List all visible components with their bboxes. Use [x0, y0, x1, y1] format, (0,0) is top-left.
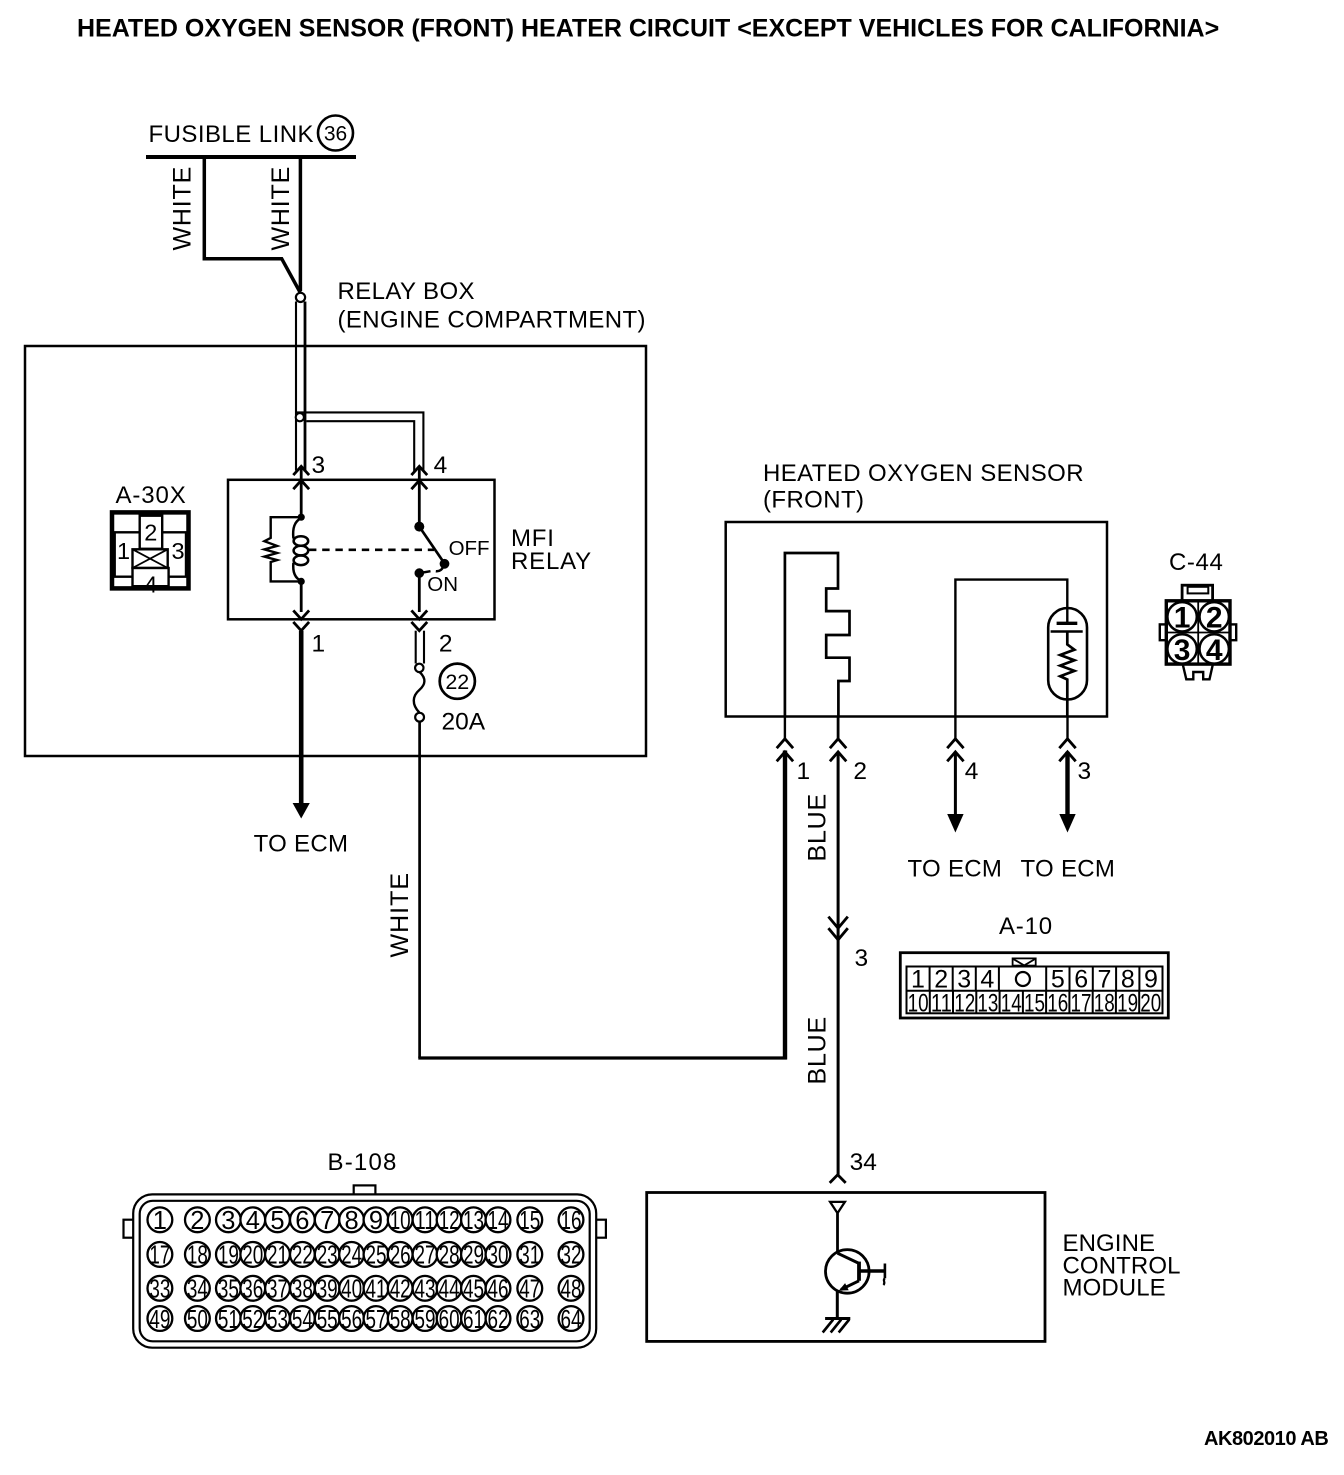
svg-text:HEATED OXYGEN SENSOR: HEATED OXYGEN SENSOR — [763, 460, 1084, 487]
svg-text:15: 15 — [1024, 989, 1045, 1017]
fusible link bus bar — [146, 155, 356, 159]
connector B-108 body — [124, 1185, 606, 1347]
svg-text:2: 2 — [144, 520, 157, 546]
svg-text:TO ECM: TO ECM — [1021, 856, 1116, 883]
svg-text:RELAY BOX: RELAY BOX — [338, 278, 475, 305]
MFI relay label — [511, 525, 592, 575]
svg-text:37: 37 — [267, 1276, 288, 1304]
svg-text:32: 32 — [561, 1242, 582, 1270]
svg-text:19: 19 — [1117, 989, 1138, 1017]
svg-text:2: 2 — [1206, 602, 1223, 635]
svg-text:20A: 20A — [442, 709, 486, 736]
svg-text:25: 25 — [366, 1242, 387, 1270]
switch ON contact dot — [415, 568, 431, 578]
svg-text:12: 12 — [954, 989, 975, 1017]
svg-text:A-30X: A-30X — [116, 482, 187, 509]
junction bullet at relay box feed — [296, 293, 305, 302]
svg-text:19: 19 — [218, 1242, 239, 1270]
connector A-10 body — [900, 953, 1168, 1018]
svg-text:17: 17 — [149, 1242, 170, 1270]
svg-text:22: 22 — [292, 1242, 313, 1270]
svg-text:3: 3 — [221, 1207, 235, 1235]
svg-text:52: 52 — [242, 1306, 263, 1334]
svg-text:13: 13 — [463, 1207, 484, 1235]
svg-text:3: 3 — [855, 945, 869, 972]
svg-text:18: 18 — [1094, 989, 1115, 1017]
wire: sensor pin 4 to ECM — [947, 752, 963, 833]
svg-text:HEATED OXYGEN SENSOR (FRONT) H: HEATED OXYGEN SENSOR (FRONT) HEATER CIRC… — [77, 15, 1219, 43]
fusible link number 36 — [318, 116, 353, 151]
svg-text:44: 44 — [439, 1276, 460, 1304]
wire: WHITE from fuse down — [418, 722, 421, 1059]
svg-text:8: 8 — [345, 1207, 359, 1235]
svg-text:36: 36 — [242, 1276, 263, 1304]
connector B-108 pin circles and numbers — [148, 1207, 584, 1334]
svg-text:30: 30 — [488, 1242, 509, 1270]
svg-text:BLUE: BLUE — [804, 793, 832, 862]
svg-text:16: 16 — [1047, 989, 1068, 1017]
svg-text:5: 5 — [270, 1207, 284, 1235]
svg-text:10: 10 — [390, 1207, 411, 1235]
svg-text:1: 1 — [117, 538, 130, 564]
junction dot coil bottom — [298, 578, 305, 585]
svg-text:63: 63 — [519, 1306, 540, 1334]
svg-text:55: 55 — [317, 1306, 338, 1334]
svg-text:C-44: C-44 — [1169, 549, 1223, 576]
svg-text:48: 48 — [561, 1276, 582, 1304]
wire: heavy feed pin 1 to ECM — [299, 631, 304, 805]
svg-text:14: 14 — [1001, 989, 1022, 1017]
svg-text:WHITE: WHITE — [169, 166, 197, 251]
connector C-44 pin numbers — [1174, 602, 1223, 667]
svg-text:11: 11 — [931, 989, 952, 1017]
connector A-10 pin numbers — [908, 966, 1162, 1018]
svg-text:WHITE: WHITE — [386, 872, 414, 958]
wire: coil to pin 1 — [300, 581, 303, 612]
switch common contact dot — [414, 522, 424, 532]
svg-text:MODULE: MODULE — [1063, 1275, 1166, 1302]
svg-text:BLUE: BLUE — [804, 1016, 832, 1085]
svg-text:35: 35 — [218, 1276, 239, 1304]
svg-text:18: 18 — [187, 1242, 208, 1270]
connector A-30X pin numbers — [117, 520, 185, 598]
svg-text:ON: ON — [427, 573, 458, 596]
svg-text:39: 39 — [317, 1276, 338, 1304]
svg-text:40: 40 — [341, 1276, 362, 1304]
svg-text:60: 60 — [439, 1306, 460, 1334]
svg-text:1: 1 — [1174, 602, 1191, 635]
relay box label — [338, 278, 646, 334]
svg-text:3: 3 — [312, 452, 326, 479]
svg-text:47: 47 — [519, 1276, 540, 1304]
wire: triangle to transistor — [836, 1213, 839, 1253]
junction dot coil top — [298, 514, 305, 521]
svg-text:20: 20 — [1140, 989, 1161, 1017]
MFI relay pin 1 connector arrows — [293, 610, 309, 630]
svg-text:4: 4 — [965, 758, 979, 785]
svg-text:FUSIBLE LINK: FUSIBLE LINK — [149, 121, 314, 148]
fuse top terminal circle — [415, 664, 423, 672]
svg-text:27: 27 — [415, 1242, 436, 1270]
svg-text:3: 3 — [172, 538, 185, 564]
svg-text:14: 14 — [488, 1207, 509, 1235]
dashed actuation line coil to switch — [309, 548, 434, 551]
connector C-44 body — [1160, 585, 1236, 679]
sensor pin 4 connector arrows — [947, 716, 963, 761]
svg-text:45: 45 — [463, 1276, 484, 1304]
ground (chassis) — [823, 1319, 851, 1333]
svg-text:20: 20 — [242, 1242, 263, 1270]
MFI relay pin 3 connector arrows — [293, 466, 309, 489]
svg-text:34: 34 — [187, 1276, 208, 1304]
svg-text:RELAY: RELAY — [511, 548, 592, 575]
svg-text:42: 42 — [390, 1276, 411, 1304]
resistor (parallel with relay coil) — [264, 517, 301, 581]
wire: double line from fusible link to MFI relay pin 3 — [296, 302, 305, 472]
wire: double line branch to MFI relay pin 4 — [296, 412, 423, 472]
svg-text:28: 28 — [439, 1242, 460, 1270]
svg-text:29: 29 — [463, 1242, 484, 1270]
svg-text:49: 49 — [149, 1306, 170, 1334]
MFI relay outline — [228, 480, 495, 620]
svg-text:23: 23 — [317, 1242, 338, 1270]
svg-text:1: 1 — [797, 758, 811, 785]
heated oxygen sensor (front) outline — [726, 522, 1107, 717]
svg-text:11: 11 — [415, 1207, 436, 1235]
wire: left WHITE feed from fusible link — [204, 157, 300, 293]
wire: sensor pin 4 to heater — [955, 580, 1067, 716]
fuse lead double line from pin 2 — [416, 631, 424, 664]
MFI relay pin 4 connector arrows — [411, 466, 427, 489]
svg-text:4: 4 — [144, 572, 157, 598]
svg-text:WHITE: WHITE — [267, 166, 295, 251]
svg-text:2: 2 — [190, 1207, 204, 1235]
svg-text:57: 57 — [366, 1306, 387, 1334]
svg-text:21: 21 — [267, 1242, 288, 1270]
svg-text:22: 22 — [445, 670, 469, 694]
svg-text:24: 24 — [341, 1242, 362, 1270]
fuse 22 element (S-curve) — [414, 672, 425, 713]
svg-text:OFF: OFF — [449, 537, 490, 560]
svg-text:13: 13 — [977, 989, 998, 1017]
engine control module outline — [647, 1193, 1045, 1342]
svg-text:4: 4 — [246, 1207, 260, 1235]
transistor (ECM driver) — [826, 1250, 885, 1294]
connector A-30X body — [112, 512, 189, 588]
ECM input triangle — [830, 1202, 845, 1213]
svg-text:6: 6 — [295, 1207, 309, 1235]
svg-text:10: 10 — [908, 989, 929, 1017]
svg-text:4: 4 — [434, 452, 448, 479]
svg-text:3: 3 — [1078, 758, 1092, 785]
wire: pin 3 to relay coil — [300, 466, 303, 517]
svg-text:2: 2 — [439, 630, 453, 657]
svg-text:15: 15 — [519, 1207, 540, 1235]
svg-text:(ENGINE COMPARTMENT): (ENGINE COMPARTMENT) — [338, 307, 646, 334]
svg-text:17: 17 — [1071, 989, 1092, 1017]
svg-text:1: 1 — [312, 630, 326, 657]
sensor pin 2 connector arrows — [830, 716, 846, 761]
in-line connector A-10 arrows on BLUE wire — [828, 917, 847, 940]
sensor pin 1 connector arrows — [777, 716, 793, 761]
svg-text:16: 16 — [561, 1207, 582, 1235]
svg-text:58: 58 — [390, 1306, 411, 1334]
heater element capsule — [1048, 608, 1087, 716]
wire: emitter to ground — [836, 1291, 839, 1319]
svg-text:56: 56 — [341, 1306, 362, 1334]
svg-text:9: 9 — [369, 1207, 383, 1235]
svg-text:54: 54 — [292, 1306, 313, 1334]
svg-text:TO ECM: TO ECM — [908, 856, 1003, 883]
svg-text:41: 41 — [366, 1276, 387, 1304]
MFI relay pin 2 connector arrows — [411, 610, 427, 630]
svg-text:38: 38 — [292, 1276, 313, 1304]
svg-text:(FRONT): (FRONT) — [763, 487, 864, 514]
wire: BLUE sensor pin 2 to ECM pin 34 — [837, 752, 840, 1175]
wire: pin 4 to switch — [418, 466, 421, 526]
ECM pin 34 connector arrow — [830, 1175, 846, 1183]
wire: switch to pin 2 — [418, 573, 421, 612]
svg-text:46: 46 — [488, 1276, 509, 1304]
svg-text:62: 62 — [488, 1306, 509, 1334]
svg-text:31: 31 — [519, 1242, 540, 1270]
svg-text:B-108: B-108 — [328, 1149, 398, 1176]
wire: right WHITE feed from fusible link — [299, 157, 303, 291]
svg-text:51: 51 — [218, 1306, 239, 1334]
sensor pin 3 connector arrows — [1059, 716, 1075, 761]
svg-text:50: 50 — [187, 1306, 208, 1334]
junction bullet at branch — [296, 413, 304, 421]
svg-text:4: 4 — [1206, 634, 1223, 667]
svg-text:7: 7 — [320, 1207, 334, 1235]
svg-text:1: 1 — [153, 1207, 167, 1235]
arrowhead TO ECM (relay pin 1) — [293, 803, 310, 819]
wire: horizontal run to sensor pin 1 — [418, 1056, 786, 1059]
svg-text:61: 61 — [463, 1306, 484, 1334]
heated oxygen sensor label — [763, 460, 1084, 514]
wire: sensor pin 3 to ECM (heavy) — [1059, 752, 1075, 833]
svg-text:34: 34 — [850, 1149, 877, 1176]
fuse number 22 — [440, 664, 475, 699]
svg-text:TO ECM: TO ECM — [254, 831, 349, 858]
svg-text:12: 12 — [439, 1207, 460, 1235]
svg-text:26: 26 — [390, 1242, 411, 1270]
svg-text:59: 59 — [415, 1306, 436, 1334]
svg-text:2: 2 — [853, 758, 867, 785]
sensor element (zirconia comb) — [785, 553, 850, 716]
fuse bottom terminal circle — [415, 713, 424, 722]
relay coil (MFI relay) — [293, 518, 308, 581]
switch lever — [419, 527, 449, 572]
svg-text:33: 33 — [149, 1276, 170, 1304]
svg-text:43: 43 — [415, 1276, 436, 1304]
relay box (engine compartment) outline — [25, 346, 646, 756]
svg-text:53: 53 — [267, 1306, 288, 1334]
wire: heavy riser to sensor pin 1 — [783, 751, 787, 1060]
engine control module label — [1063, 1230, 1181, 1302]
svg-text:64: 64 — [561, 1306, 582, 1334]
svg-text:AK802010 AB: AK802010 AB — [1204, 1428, 1328, 1450]
svg-text:A-10: A-10 — [999, 913, 1053, 940]
svg-text:36: 36 — [324, 123, 347, 146]
svg-text:3: 3 — [1174, 634, 1191, 667]
